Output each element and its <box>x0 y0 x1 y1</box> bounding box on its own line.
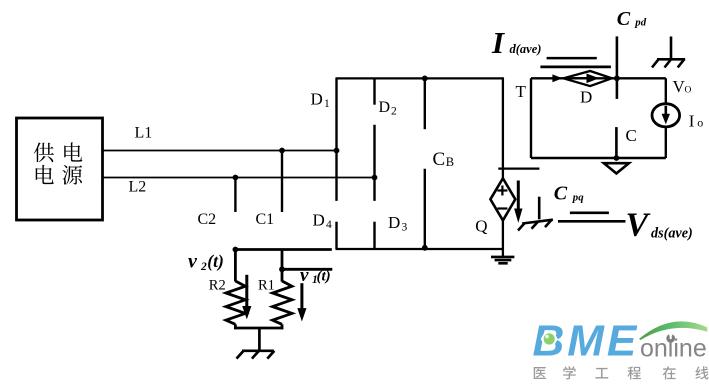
svg-text:B: B <box>446 155 454 169</box>
svg-text:4: 4 <box>326 219 332 231</box>
svg-text:D: D <box>388 213 400 232</box>
svg-text:d(ave): d(ave) <box>510 42 542 56</box>
svg-text:(t): (t) <box>207 251 224 271</box>
svg-text:T: T <box>516 82 527 101</box>
svg-text:L2: L2 <box>129 179 147 196</box>
svg-text:Q: Q <box>475 217 487 236</box>
svg-text:2: 2 <box>391 106 397 118</box>
svg-text:pq: pq <box>572 192 584 204</box>
svg-text:V: V <box>626 207 651 244</box>
svg-text:D: D <box>379 99 391 116</box>
svg-text:ds(ave): ds(ave) <box>651 225 693 241</box>
svg-text:C: C <box>554 183 568 205</box>
svg-text:D: D <box>313 211 325 230</box>
svg-text:R2: R2 <box>209 278 226 294</box>
svg-text:o: o <box>697 116 703 130</box>
svg-text:C: C <box>626 126 637 145</box>
svg-text:I: I <box>689 112 695 131</box>
svg-text:v: v <box>188 250 198 272</box>
svg-text:(t): (t) <box>317 269 331 285</box>
svg-text:v: v <box>300 265 309 286</box>
svg-text:C2: C2 <box>198 211 217 228</box>
svg-text:D: D <box>311 90 323 109</box>
svg-text:I: I <box>491 25 505 60</box>
svg-text:O: O <box>685 86 692 96</box>
svg-text:L1: L1 <box>135 124 153 141</box>
svg-text:1: 1 <box>324 98 330 110</box>
svg-text:3: 3 <box>402 222 408 234</box>
svg-text:C: C <box>617 8 631 30</box>
svg-text:R1: R1 <box>258 278 275 294</box>
svg-text:2: 2 <box>200 261 207 273</box>
svg-text:D: D <box>580 87 592 106</box>
svg-text:C1: C1 <box>256 211 275 228</box>
svg-text:pd: pd <box>634 17 646 29</box>
svg-text:C: C <box>433 149 446 170</box>
